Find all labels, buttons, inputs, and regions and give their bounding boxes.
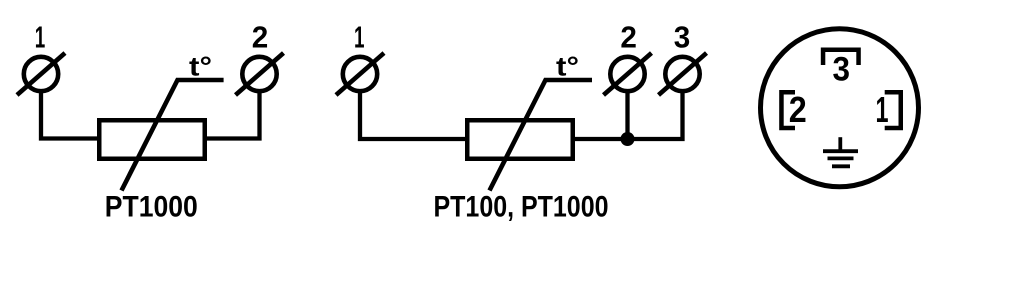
RTD diagonal with t° tail (middle diagram) [490, 80, 593, 191]
wire resistor to terminal2 (left diagram) [205, 91, 260, 139]
svg-text:PT100, PT1000: PT100, PT1000 [434, 190, 609, 223]
svg-text:t°: t° [556, 52, 579, 82]
pin 2 bracket [781, 92, 795, 128]
svg-text:3: 3 [832, 51, 850, 89]
terminal 2 (left diagram) [236, 53, 284, 95]
wire terminal1 to resistor (left diagram) [41, 91, 99, 139]
svg-text:2: 2 [620, 20, 637, 55]
svg-text:3: 3 [674, 20, 691, 55]
svg-text:1: 1 [35, 20, 46, 55]
terminal 2 (middle diagram) [604, 53, 652, 95]
wire terminal2 to junction (middle diagram) [625, 91, 629, 139]
RTD diagonal with t° tail (left diagram) [122, 80, 224, 191]
wire resistor to terminal3 (middle diagram) [573, 91, 683, 139]
svg-text:t°: t° [189, 52, 212, 82]
wire terminal1 to resistor (middle diagram) [360, 91, 467, 139]
svg-text:2: 2 [789, 89, 807, 130]
svg-text:1: 1 [876, 89, 889, 130]
svg-text:PT1000: PT1000 [105, 190, 198, 223]
junction dot (middle diagram) [621, 132, 635, 146]
pin 1 bracket [885, 92, 901, 128]
resistor PT100/PT1000 (middle diagram) [467, 120, 573, 159]
pin 3 bracket [823, 50, 859, 65]
terminal 1 (left diagram) [17, 53, 65, 95]
resistor PT1000 (left diagram) [99, 120, 205, 159]
terminal 3 (middle diagram) [659, 53, 707, 95]
ground symbol [823, 137, 858, 166]
svg-text:2: 2 [252, 20, 269, 55]
svg-text:1: 1 [354, 20, 365, 55]
terminal 1 (middle diagram) [336, 53, 384, 95]
connector body circle [761, 29, 919, 187]
